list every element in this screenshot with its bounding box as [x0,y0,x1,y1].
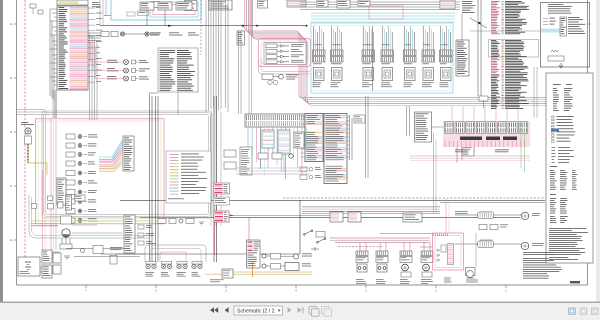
machine box cyan band [541,29,560,33]
feed line label boxes [150,32,161,35]
quad bus verticals [149,96,151,262]
bottom bus vertical x300 [299,200,301,254]
frame bottom border [17,284,588,286]
feed arrowhead 2 [242,25,247,27]
svg-text:E: E [10,76,12,80]
frame right border [587,0,589,285]
starter relay stacks [53,253,61,263]
cyan box component 2 [184,1,197,11]
injector group 3 [362,50,375,56]
verticals feeding bottom right area [433,133,435,213]
wires into battery area [420,246,433,248]
battery nested pink loop outer [433,233,464,270]
pump motor group C [400,251,412,256]
green wires in K1 [520,121,522,168]
arrow on red wire [230,215,234,217]
red mini stack upper [214,183,230,194]
top right corner text [548,3,563,6]
bus lines right of x300 [302,206,440,208]
legend wire gauge table 2 [550,193,556,196]
wire table lower pin dashes [502,39,504,42]
toolbar prev-page button [225,307,229,313]
yellow inner line of cab box [38,121,161,221]
sender stack bottom-center [247,240,261,268]
legend gauge table 3 [550,215,555,218]
label box upper [75,195,86,201]
cab connector stack [123,136,134,171]
battery labels [444,277,451,280]
ECM label box right [354,115,365,123]
legend notes paragraph [549,227,587,230]
legend swatch row 4 [170,163,179,165]
svg-text:Schematic (2 / 2: Schematic (2 / 2 [237,308,275,314]
sender row 2 box [271,264,281,270]
yellow wire elbow [28,163,47,175]
feed junction dot A [256,25,258,27]
feeder junction dot [478,22,480,24]
machine box dash rows [543,18,548,20]
machine box text rows [568,16,580,19]
plug under wire table [479,96,488,101]
battery label [20,270,29,273]
ECM left stubs [301,115,306,117]
red drops to solenoid groups [359,242,361,251]
sender row 2 wire [281,265,286,267]
pink verticals feeding battery box [445,199,447,233]
top right label rows [462,0,473,3]
machine box label plate [548,56,564,61]
ignition connector stack [124,215,135,253]
wrap lines under module [259,60,311,74]
top small connector box T2 [158,2,172,10]
svg-text:M: M [404,266,407,270]
red wire from fuse stack [229,214,340,216]
frame left border [16,0,18,285]
barrel connector upper [478,212,494,219]
connector stack K2 [415,112,432,142]
legend swatch row 12 [170,187,179,189]
wires J1 right side horizontals [88,32,101,34]
pink verticals lower-left [50,119,52,250]
injector group 4 [381,50,394,56]
machine box outline [541,3,590,68]
bottom switch S1 [305,231,311,234]
ECM stack right [324,114,347,184]
sender row 1 plug [262,254,266,258]
K1 pink background field [443,121,530,147]
wire K2 to K1 [432,126,444,128]
connector stack right of legend [240,147,252,175]
outer loop around lower-left [29,195,150,238]
central bus verticals [205,0,207,112]
mini stack right of labels [237,31,245,45]
battery diode marks [437,249,440,251]
cyan inner loop wires [150,2,198,17]
injector vertical wires [313,26,315,50]
breaker label box row1b [111,32,118,37]
wire into machine box [470,30,541,32]
fuel pump component [222,269,233,278]
svg-text:E: E [10,130,12,134]
battery inner small box [441,245,446,252]
wire from fuse list down [177,92,179,114]
stack output wires [52,251,60,253]
breaker label box row1 [101,32,109,37]
wire into connector row [115,253,145,255]
toolbar next-page button disabled [288,307,292,313]
wires under top boxes [146,10,148,26]
fuse box F4 [348,212,361,222]
relay module box [264,43,306,65]
pink harness into H1 bundle [299,96,582,98]
ground symbol mid [199,222,204,225]
yellow fuel wires center [231,271,312,273]
red vertical drop [214,222,216,254]
legend color table header [553,83,561,86]
top small connector box T3 [176,2,192,10]
row1 tail wire [149,33,160,35]
horn connector H2 [480,240,492,246]
wire table upper pin dashes [502,0,504,3]
routing loops above connector row [145,245,206,262]
diagonal wire to table [470,18,487,28]
ECM stack left [305,114,323,162]
pink verticals pair 2 [42,170,44,250]
toolbar view icon single active [569,308,576,314]
connector J1 header box [57,0,88,5]
pump motor group D [421,251,433,256]
grey lines through band to strip [248,0,250,114]
legend swatch row 2 [170,157,179,159]
connector J1 tall stack body [57,6,88,90]
plug symbol row1 [120,32,124,36]
pink harness dashed line left margin [24,0,26,268]
legend swatch row 3 [170,160,179,162]
box on key output [93,246,103,254]
grey drop right of battery [475,233,477,267]
cab fan wires tan [99,161,123,169]
pink wrap around relay module [259,39,311,67]
solenoid group B [376,251,388,256]
toolbar last-page button disabled [298,307,302,313]
page number block [570,281,580,283]
module lower component row [262,74,273,80]
yellow-black striped wire [27,144,29,163]
legend swatch row 11 [170,184,179,186]
double bus line vertical right of legend [213,96,215,262]
pink wires right of J1 [90,42,92,62]
red feed to sender stack [248,218,250,240]
long bus line y200 [120,199,545,201]
long feed line y254 [101,253,300,255]
wire above E2 [461,14,463,40]
battery top feed line [380,233,433,235]
ECM bottom left rows [300,167,307,172]
mid component row between horns [479,225,487,230]
injector box divider vertical [372,26,374,91]
key switch [62,229,70,237]
grey mini stack middle [214,197,230,205]
wire table lower codes [491,39,496,42]
coolant sensor symbol [25,128,31,134]
left page shadow strip [0,0,3,302]
cyan box left stub [104,15,111,17]
wire bundle J1 down to lower left area [52,90,54,118]
wires from key switch [72,224,98,226]
labels under K1 [455,149,467,152]
legend footnote [168,198,184,201]
ECM collector verticals [349,115,351,160]
coolant sensor label [21,121,28,124]
white box over bus top [209,0,232,10]
cyan box label box [138,11,149,16]
K1 pin groups [445,122,454,134]
verticals from top edge left of cyan box [99,0,101,26]
horn B2 [521,242,529,250]
cyan pink wires crossing right [236,167,310,169]
legend wire gauge table 1 [550,165,557,168]
top connector stack tiny 3 [358,0,370,6]
ECM pin strip left segment [245,114,309,127]
top stack above pink band [258,0,268,8]
long bus line y217 [140,217,520,219]
J1 right stub wires with labels [88,7,95,9]
bulkhead connector row [146,264,150,268]
pink drops from H1 to K1 [451,106,453,121]
top-left label rows near J1 [92,1,99,4]
injector cyan box outline [311,23,453,93]
top pink connector stack [440,0,455,9]
rows right of ignition stack [138,225,144,229]
legend swatch row 10 [170,181,179,183]
page bottom shadow [0,302,600,304]
pink wires lower left [31,223,58,225]
legend box outline [166,151,211,203]
machine box inner stack [560,17,567,36]
svg-text:E: E [10,238,12,242]
frame row tick letters left [14,23,17,25]
orange vertical wire [252,262,254,277]
machine box ground arrow [559,63,563,68]
bottom right notes paragraph [523,251,554,254]
cab fan wires cyan [99,139,123,157]
injector group 7 [440,50,453,56]
ECM stack left gap [306,126,322,132]
sender row 1 gauge [293,254,298,259]
svg-text:M: M [425,266,428,270]
wire table upper codes pink [491,0,500,3]
fuse list block [158,48,198,92]
sensor row 1 [107,59,117,62]
feed arrowhead 1 [168,25,173,27]
battery nested pink loop inner [435,236,461,268]
svg-text:E: E [10,22,12,26]
wire drops from J1 left [49,9,51,96]
injector dark bus horizontals [300,1,460,3]
horn B1 [521,212,529,220]
extra bus line y202 [440,202,545,204]
legend color table rows [553,87,557,90]
toolbar page dropdown [234,306,283,315]
sender row 2 plug [262,264,266,268]
dashed vertical wire left of bus [200,0,202,55]
sender row 1 label [302,253,312,256]
coolant sensor body [25,136,32,144]
small stacks below ECM strip [262,130,274,148]
left connector stack LC [57,178,66,205]
toolbar layers icon 2 disabled [322,307,330,315]
injector group 5 [404,50,417,56]
dashed bus line y198 [283,197,545,199]
central bus lower extensions [210,112,212,226]
ECM stack right gap [325,161,346,166]
injector cyan box inner line [314,26,451,91]
toolbar view icon three [592,308,599,314]
yellow long wire left [31,220,152,222]
top small connector box T1 [140,2,154,10]
cab fan wires pink [99,146,123,160]
wire row1 [125,33,145,35]
top connector stack tiny 2 [337,0,350,8]
top-left corner small boxes [30,4,36,8]
key switch lower contacts [61,238,63,244]
legend symbol list [552,116,555,118]
vertical drop wires right of J1 [89,34,91,120]
K1 dark connector bars [460,137,482,141]
breaker box F5 [403,213,422,222]
pink cab box outline [36,119,165,224]
small stack below table [462,146,474,156]
connector J1 pin labels [59,6,65,9]
left sender component row [158,219,166,224]
quad bus elbow top [150,93,159,96]
loop feed lines from frame [17,109,46,111]
battery top pin ticks [433,234,435,237]
small box right of stacks [110,255,117,264]
fuse box F3 [330,212,343,222]
twin circles under module [268,80,272,84]
top connector stack tiny 1 [317,0,328,7]
connector stack E2 [456,40,469,76]
middle component rows column [66,134,75,139]
pink horizontals under K1 [410,155,530,157]
sensor row 2 [107,67,115,70]
vertical connector mini stack [66,195,72,210]
ground under key switch [64,256,70,259]
sender row 1 wire [281,255,294,257]
battery inner pin stack [448,244,454,265]
verticals H1 to K2 [406,106,408,136]
legend swatch row 9 [170,178,179,180]
sender row 1 box [271,254,281,260]
machine box resistor [551,50,559,52]
legend swatch row 6 [170,169,179,171]
diode D1 [311,247,319,251]
relay module rows [266,44,277,48]
battery leads [40,267,42,269]
toolbar layers icon 1 [309,307,317,315]
battery box left [18,257,40,276]
battery symbol left [25,261,31,263]
cyan circuit box outline [111,0,201,20]
cab fan wires yellow [99,156,123,166]
legend swatch row 13 [170,190,179,192]
horn connector H1 [480,212,492,218]
plug on key output [81,249,85,253]
sender row 2 device [285,263,299,271]
legend highlighted row [551,129,559,132]
wire table lower section header box [489,40,539,58]
vertical feeders left of table [477,0,479,96]
wire table upper descriptions [505,0,522,3]
legend swatch row 8 [170,175,179,177]
K1 pink stripes lower [444,141,446,147]
cyan box component 1 [152,2,160,8]
wires below small stacks [267,148,269,168]
top wide pink stack [287,0,306,7]
sender row 2 label [302,263,311,266]
solenoid group A [356,251,368,256]
toolbar view icon two [580,308,587,314]
red verticals from K1 area [456,147,458,163]
components right of legend [258,153,268,159]
pink harness vertical band from top [245,0,300,96]
grey routing loop nest [42,111,212,218]
pink wires to sensor rows [91,61,124,63]
horn labels left [455,210,468,213]
legend footer rows [549,256,568,259]
plug symbol row1b [145,32,149,36]
injector wire gauge labels [314,44,322,47]
cyan box wire label 2 [127,12,135,16]
grey vertical lower-left [55,121,57,250]
key output line [66,247,127,249]
injector group 6 [422,50,435,56]
motor under battery box [466,268,476,276]
ECM pin stubs to collector [347,116,350,118]
frame row ticks right [588,23,591,25]
legend swatch row 5 [170,166,179,168]
toolbar background [0,303,600,320]
frame column ticks bottom [85,285,87,288]
sensor row 3 [107,75,116,78]
colored wire drops under ECM strip [247,127,249,148]
dashed sense wire [338,246,382,248]
legend swatch row 14 [170,193,179,195]
injector group 2 [331,50,344,56]
connector stack CL1 [42,250,52,263]
harness H1 right edge drop [581,98,583,200]
main feed line [100,25,307,27]
red distribution bundle [330,237,430,239]
junction boxes right of bus [224,150,236,157]
legend swatch row 1 [170,154,179,156]
wires to horns [494,214,522,216]
bottom switch S2 [318,239,324,242]
verticals from machine box to K1 [533,67,535,118]
right page edge shading [596,0,600,302]
wire stubs J1 left side [50,8,57,10]
parts row boxes upper [32,204,37,209]
central bus pair right [238,30,240,114]
wire table lower descriptions [505,39,521,42]
legend swatch row 7 [170,172,179,174]
connector stack CL2 [42,265,52,278]
feed junction dot B [306,25,308,27]
fuel pump label [210,279,224,282]
barrel connector lower [478,241,494,248]
legend notes box outline [546,73,593,263]
